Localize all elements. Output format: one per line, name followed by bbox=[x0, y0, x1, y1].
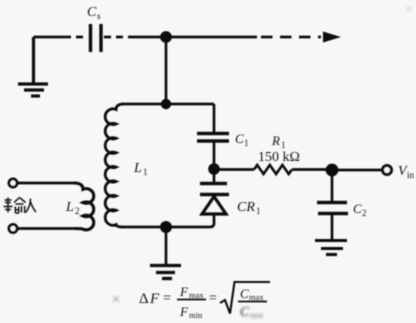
svg-text:in: in bbox=[407, 170, 415, 180]
terminal input bottom bbox=[9, 224, 17, 232]
label Cs bbox=[87, 5, 101, 21]
svg-text:min: min bbox=[189, 310, 203, 320]
label R1 bbox=[271, 133, 286, 150]
label input (Chinese) bbox=[4, 198, 36, 214]
wire dashed arrow to the right bbox=[166, 36, 321, 39]
svg-text:C: C bbox=[353, 201, 362, 216]
wire node D down to CR1 bbox=[213, 169, 216, 183]
wire Cs to node A (dashed then solid) bbox=[104, 36, 166, 39]
label CR1 bbox=[237, 200, 261, 216]
formula delta F bbox=[139, 284, 264, 320]
node E (R1/C2/Vin junction) bbox=[326, 164, 339, 177]
resistor R1 bbox=[254, 165, 292, 174]
node C (tank bottom junction) bbox=[160, 221, 172, 233]
terminal Vin bbox=[383, 166, 392, 175]
svg-text:C: C bbox=[235, 131, 244, 146]
ground (center) bbox=[150, 266, 181, 279]
faint scan speck bottom-left bbox=[113, 296, 119, 302]
svg-text:C: C bbox=[87, 5, 97, 20]
wire R1 to node E bbox=[292, 168, 332, 171]
capacitor C1 bbox=[197, 134, 229, 142]
输 bbox=[4, 198, 13, 213]
ground (right, below C2) bbox=[315, 241, 347, 255]
svg-text:R: R bbox=[271, 133, 280, 148]
label C2 bbox=[353, 201, 367, 218]
wire top-left horizontal from ground to Cs (solid then dashed) bbox=[34, 36, 89, 39]
wire node E to output terminal bbox=[332, 169, 381, 172]
svg-text:L: L bbox=[133, 161, 142, 176]
wire ground stem bbox=[165, 227, 168, 264]
svg-text:2: 2 bbox=[362, 208, 367, 218]
svg-text:1: 1 bbox=[143, 167, 148, 177]
label C1 bbox=[235, 131, 249, 148]
svg-text:=: = bbox=[163, 291, 171, 306]
wire C2 to ground bbox=[331, 214, 334, 241]
terminal input top bbox=[9, 179, 17, 187]
label L1 bbox=[133, 161, 148, 177]
svg-text:2: 2 bbox=[75, 206, 80, 216]
node B (tank top junction) bbox=[161, 99, 171, 109]
wire CR1 anode to bottom rail bbox=[210, 214, 214, 227]
svg-text:=: = bbox=[209, 291, 217, 306]
svg-text:C: C bbox=[240, 286, 249, 301]
wire tank bottom rail bbox=[122, 226, 210, 229]
wire node E down to C2 bbox=[331, 170, 334, 201]
svg-text:F: F bbox=[179, 284, 189, 299]
svg-text:F: F bbox=[179, 304, 189, 319]
node D (C1/CR1/R1 junction) bbox=[208, 163, 220, 175]
wire vertical node A down to tank bbox=[165, 37, 168, 104]
wire C1 to node D bbox=[213, 141, 216, 169]
value 150 kOhm bbox=[258, 150, 300, 165]
svg-text:1: 1 bbox=[244, 138, 249, 148]
inductor L2 bbox=[74, 183, 94, 230]
入 bbox=[26, 199, 36, 213]
svg-text:max: max bbox=[189, 290, 204, 300]
inductor L1 bbox=[105, 104, 124, 227]
wire node D to resistor R1 bbox=[218, 168, 254, 171]
wire right branch down to C1 bbox=[213, 104, 216, 132]
label Vin bbox=[398, 164, 415, 180]
svg-text:L: L bbox=[65, 200, 74, 215]
node A (top junction) bbox=[160, 31, 172, 43]
ground (top left) bbox=[18, 37, 48, 96]
svg-text:s: s bbox=[97, 11, 101, 21]
svg-text:1: 1 bbox=[256, 206, 261, 216]
svg-text:150 kΩ: 150 kΩ bbox=[258, 150, 300, 165]
faint scan mark top-right corner bbox=[406, 6, 412, 12]
varactor diode CR1 bbox=[200, 184, 229, 215]
capacitor C2 bbox=[317, 203, 348, 214]
fraction bars and radical bbox=[177, 282, 270, 314]
svg-text:min: min bbox=[250, 310, 264, 320]
wire input bottom to L2 bbox=[17, 227, 76, 230]
svg-text:F: F bbox=[149, 291, 160, 307]
svg-text:Δ: Δ bbox=[139, 291, 149, 307]
label L2 bbox=[65, 200, 80, 216]
svg-text:CR: CR bbox=[237, 200, 255, 215]
svg-text:1: 1 bbox=[281, 140, 286, 150]
wire tank top rail bbox=[122, 103, 214, 106]
capacitor Cs bbox=[91, 24, 102, 52]
wire input top to L2 bbox=[17, 182, 76, 185]
svg-text:C: C bbox=[240, 304, 250, 319]
svg-text:max: max bbox=[249, 292, 264, 302]
arrowhead bbox=[323, 32, 341, 43]
